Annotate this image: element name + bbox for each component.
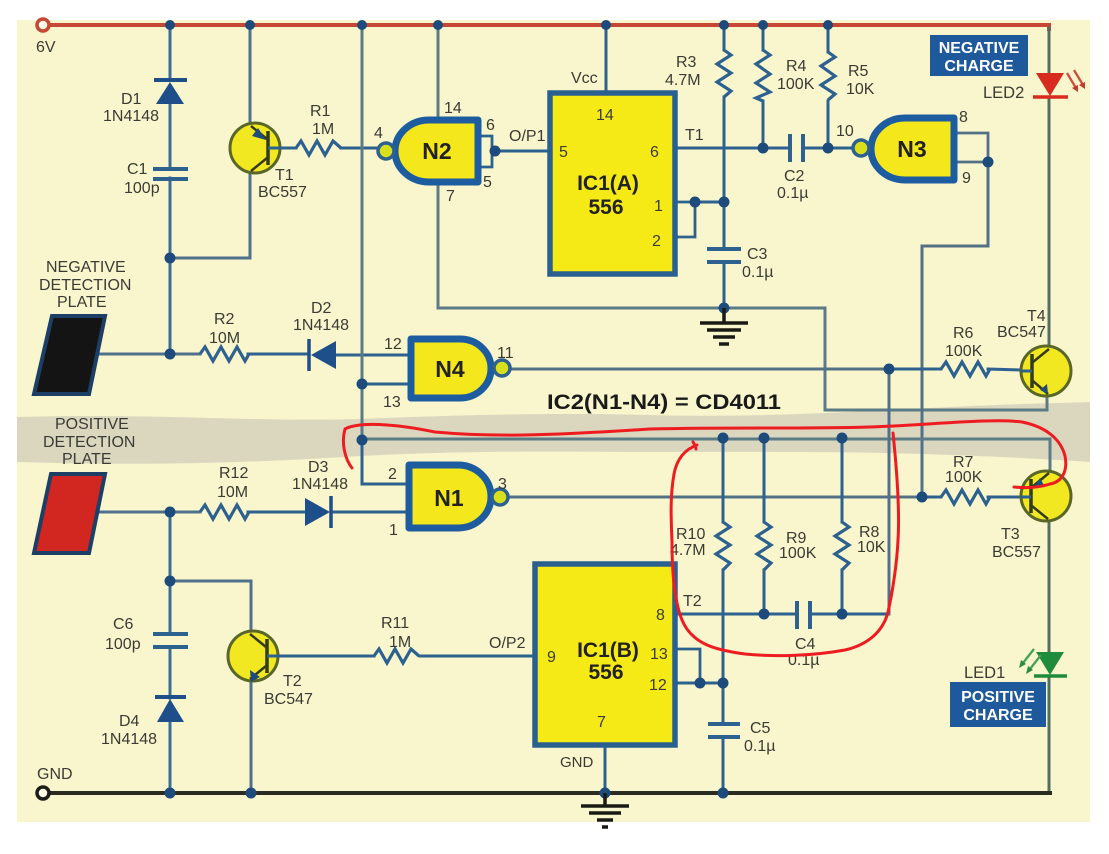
- diode D2: [309, 339, 336, 371]
- svg-text:T3: T3: [1001, 526, 1020, 543]
- svg-text:R12: R12: [219, 465, 248, 482]
- svg-text:LED2: LED2: [983, 84, 1024, 102]
- gate N1 bubble pin3: [492, 489, 508, 505]
- node R3 C3: [719, 197, 730, 208]
- negative detection plate: [34, 316, 105, 394]
- svg-text:LED1: LED1: [964, 664, 1005, 682]
- svg-text:100p: 100p: [124, 180, 160, 197]
- svg-text:R6: R6: [953, 325, 974, 342]
- svg-text:13: 13: [650, 646, 668, 663]
- svg-text:NEGATIVE: NEGATIVE: [46, 259, 126, 276]
- IC IC1(B) 556 body: [535, 564, 675, 745]
- svg-text:R10: R10: [676, 526, 705, 543]
- svg-text:2: 2: [388, 466, 397, 483]
- wire 6V top rail: [49, 23, 1049, 27]
- wire IC1A pins1-2 bracket: [675, 202, 695, 237]
- node pin12 R10: [718, 678, 729, 689]
- node 6V terminal: [37, 19, 49, 31]
- node R4 T1net: [758, 143, 769, 154]
- svg-text:100K: 100K: [777, 76, 815, 93]
- svg-text:7: 7: [597, 714, 606, 731]
- wire R7 to T3 base: [922, 496, 941, 499]
- node gnd x170: [165, 788, 176, 799]
- svg-text:T1: T1: [685, 127, 704, 144]
- svg-text:13: 13: [383, 394, 401, 411]
- svg-text:GND: GND: [37, 766, 73, 783]
- svg-text:T2: T2: [683, 593, 702, 610]
- wire N3 inputs bracket pins 8,9: [954, 133, 988, 162]
- node GND terminal: [37, 787, 49, 799]
- wire positive plate to R12: [96, 511, 200, 514]
- resistor R8: [835, 522, 849, 570]
- svg-text:0.1µ: 0.1µ: [777, 185, 808, 202]
- gate N4 bubble pin11: [494, 360, 510, 376]
- svg-text:556: 556: [588, 661, 623, 684]
- node ground IC1A: [719, 303, 730, 314]
- ground symbol IC1A: [700, 308, 748, 344]
- resistor R12: [200, 505, 249, 519]
- svg-text:10M: 10M: [209, 330, 240, 347]
- svg-text:R11: R11: [381, 615, 409, 632]
- positive detection plate: [34, 474, 105, 553]
- svg-text:100K: 100K: [945, 469, 983, 486]
- svg-text:R5: R5: [848, 63, 869, 80]
- wire C2 right to N3 bubble pin10: [803, 147, 853, 150]
- node N4out R6: [884, 364, 895, 375]
- capacitor C6: [153, 634, 188, 647]
- gray scan band: [17, 402, 1090, 464]
- node N1out R7: [917, 492, 928, 503]
- svg-text:C6: C6: [113, 616, 134, 633]
- svg-text:14: 14: [596, 107, 614, 124]
- svg-text:8: 8: [656, 607, 665, 624]
- svg-text:10K: 10K: [857, 539, 886, 556]
- svg-text:1: 1: [654, 198, 663, 215]
- svg-text:T4: T4: [1027, 308, 1046, 325]
- svg-text:IC1(A): IC1(A): [577, 172, 639, 195]
- svg-text:12: 12: [649, 677, 667, 694]
- node gnd x251: [246, 788, 257, 799]
- resistor R10: [716, 522, 730, 570]
- diode D4: [155, 697, 186, 722]
- label box NEGATIVE CHARGE: [930, 35, 1028, 76]
- node R8 C4: [837, 609, 848, 620]
- node plate R12: [165, 507, 176, 518]
- svg-text:1M: 1M: [312, 121, 334, 138]
- wire R5 leads: [827, 25, 830, 52]
- node rail x250: [245, 20, 255, 30]
- label box POSITIVE CHARGE: [950, 682, 1046, 727]
- svg-text:R4: R4: [786, 58, 807, 75]
- svg-text:6V: 6V: [36, 39, 56, 56]
- wire R9 leads: [763, 438, 766, 522]
- node rail x362: [357, 20, 367, 30]
- svg-text:5: 5: [559, 144, 568, 161]
- wire IC1B pin7 to ground rail: [604, 745, 607, 793]
- IC IC1(A) 556 body: [550, 93, 675, 274]
- svg-text:IC2(N1-N4) = CD4011: IC2(N1-N4) = CD4011: [547, 391, 781, 414]
- gate N4 body: [411, 339, 491, 398]
- resistor R1: [296, 141, 341, 155]
- node N4 pin13: [357, 379, 368, 390]
- svg-text:4.7M: 4.7M: [665, 72, 701, 89]
- node R8 top: [837, 433, 848, 444]
- svg-text:0.1µ: 0.1µ: [742, 264, 773, 281]
- svg-text:1: 1: [389, 522, 398, 539]
- node rail R3: [719, 20, 729, 30]
- wire R4 leads: [762, 25, 765, 50]
- wire T3 collector to LED1: [1048, 520, 1051, 653]
- svg-text:3: 3: [498, 476, 507, 493]
- svg-text:1M: 1M: [389, 634, 411, 651]
- svg-text:NEGATIVE: NEGATIVE: [939, 40, 1020, 57]
- svg-text:6: 6: [650, 144, 659, 161]
- gate N2 bubble pin4: [378, 143, 394, 159]
- svg-text:8: 8: [959, 109, 968, 126]
- node pin1 bracket: [690, 197, 701, 208]
- gate N3 body: [871, 118, 954, 180]
- svg-text:1N4148: 1N4148: [293, 317, 349, 334]
- ground symbol IC1B: [581, 793, 629, 827]
- svg-text:C2: C2: [784, 168, 805, 185]
- svg-text:POSITIVE: POSITIVE: [961, 689, 1035, 706]
- wire D2 to N4 pin12: [336, 354, 411, 357]
- diode D1: [154, 80, 187, 104]
- svg-text:N3: N3: [897, 136, 926, 162]
- wire T1 base to R1 to N2 bubble: [282, 147, 296, 150]
- wire T2 emitter to ground rail: [250, 680, 253, 793]
- transistor T2 BC547: [228, 631, 283, 682]
- svg-text:100K: 100K: [779, 545, 817, 562]
- wire C4 right to x889 riser: [810, 613, 889, 616]
- svg-text:T2: T2: [283, 673, 302, 690]
- svg-text:D1: D1: [121, 91, 142, 108]
- gate N1 body: [409, 465, 491, 528]
- svg-text:POSITIVE: POSITIVE: [55, 416, 129, 433]
- svg-text:D4: D4: [119, 713, 140, 730]
- wire node to T2 collector: [170, 581, 251, 633]
- svg-text:GND: GND: [560, 754, 594, 771]
- LED1 green: [1019, 649, 1067, 676]
- svg-text:PLATE: PLATE: [62, 451, 112, 468]
- LED2 red: [1033, 70, 1085, 97]
- resistor R4: [756, 50, 770, 101]
- svg-text:5: 5: [483, 174, 492, 191]
- wire N2 pin14 vertical from rail through gate: [437, 25, 440, 120]
- resistor R2: [200, 347, 249, 361]
- svg-text:C4: C4: [795, 636, 816, 653]
- wire N2 pin7 down then ground run right, down, right to T4 emitter: [438, 182, 1047, 410]
- svg-text:6: 6: [486, 117, 495, 134]
- node N3 bracket: [983, 157, 994, 168]
- node R5 C2: [823, 143, 834, 154]
- wire T1 emitter to rail: [249, 25, 252, 123]
- wire R10 bottom to pin12 line to C5 to ground rail: [722, 570, 725, 724]
- wire Vcc from rail to IC1A pin14: [605, 25, 608, 93]
- wire IC1B pin13 bracket to pin12 line: [675, 649, 700, 683]
- svg-text:D2: D2: [311, 300, 332, 317]
- svg-text:7: 7: [446, 188, 455, 205]
- wire N1 output pin3 to R7 node: [509, 496, 922, 499]
- svg-text:CHARGE: CHARGE: [963, 707, 1033, 724]
- capacitor C2: [790, 134, 803, 162]
- svg-text:DETECTION: DETECTION: [39, 277, 131, 294]
- capacitor C1: [153, 169, 188, 179]
- svg-text:PLATE: PLATE: [57, 294, 107, 311]
- wire negative plate to R2: [96, 353, 200, 356]
- red pen main stroke: [343, 421, 1065, 488]
- node N2 output: [490, 146, 501, 157]
- node rail x170: [165, 20, 175, 30]
- wire R10 top lead: [722, 438, 725, 522]
- node C1-T1: [165, 253, 176, 264]
- resistor R9: [757, 522, 771, 570]
- node R9 top: [759, 433, 770, 444]
- wire GND bottom rail: [50, 791, 1050, 795]
- wire T2 net: IC1B pin8 to C4: [675, 613, 797, 616]
- wire R3 chain vertical x724: [723, 25, 726, 50]
- svg-text:DETECTION: DETECTION: [43, 434, 135, 451]
- resistor R11: [374, 649, 419, 663]
- node pin13 pin12: [695, 678, 706, 689]
- gate N2 body: [395, 120, 478, 182]
- wire R11 to IC1B pin9 O/P2: [420, 655, 535, 658]
- node rail Vcc: [601, 20, 611, 30]
- svg-text:R2: R2: [214, 311, 235, 328]
- svg-text:100K: 100K: [945, 343, 983, 360]
- wire positive plate down chain to C6 D4 ground: [169, 512, 172, 634]
- svg-text:BC557: BC557: [258, 184, 307, 201]
- svg-text:BC547: BC547: [997, 324, 1046, 341]
- wire 6V band line from x362 node right, down to T3 emitter: [362, 439, 1050, 471]
- transistor T1 BC557: [230, 123, 282, 173]
- node R9 pin8: [759, 609, 770, 620]
- wire N1 pin2 stub from 6V vertical: [362, 440, 409, 484]
- svg-text:1N4148: 1N4148: [101, 731, 157, 748]
- svg-text:C1: C1: [127, 161, 148, 178]
- gate N3 bubble pin10: [853, 140, 869, 156]
- red pen loop around R8 R9 R10 C4: [671, 433, 898, 656]
- wire IC1B pin12 to R10 chain: [675, 682, 723, 685]
- svg-text:1N4148: 1N4148: [292, 476, 348, 493]
- resistor R7: [941, 490, 990, 504]
- svg-text:C5: C5: [750, 720, 771, 737]
- svg-text:2: 2: [652, 233, 661, 250]
- svg-text:O/P2: O/P2: [489, 635, 526, 652]
- svg-text:12: 12: [384, 336, 402, 353]
- svg-text:556: 556: [588, 196, 623, 219]
- node rail R4: [758, 20, 768, 30]
- svg-text:11: 11: [497, 345, 514, 362]
- wire riser x889 from R6 node down to pin8 line: [888, 369, 891, 614]
- svg-text:O/P1: O/P1: [509, 128, 546, 145]
- transistor T4 BC547: [1021, 346, 1071, 396]
- svg-text:R1: R1: [310, 103, 331, 120]
- wire LED2 cathode to T4 collector: [1048, 98, 1051, 347]
- svg-text:10K: 10K: [846, 81, 875, 98]
- wire LED1 cathode to ground rail corner: [1048, 677, 1051, 791]
- node rail x438: [433, 20, 443, 30]
- svg-text:Vcc: Vcc: [571, 70, 598, 87]
- wire N4 pin13 stub: [362, 383, 411, 386]
- wire D1 C1 chain vertical: [169, 25, 172, 80]
- wire N1 N4 vertical x362 from rail: [361, 25, 364, 440]
- resistor R5: [821, 52, 835, 100]
- wire LED2 branch from rail corner down to T4: [1047, 25, 1051, 29]
- svg-text:0.1µ: 0.1µ: [744, 738, 775, 755]
- svg-text:T1: T1: [275, 167, 294, 184]
- svg-text:4.7M: 4.7M: [670, 542, 706, 559]
- transistor T3 BC557: [1021, 471, 1071, 521]
- capacitor C3: [707, 249, 741, 262]
- svg-text:9: 9: [547, 649, 556, 666]
- node plate R2: [165, 349, 176, 360]
- svg-text:N1: N1: [434, 485, 464, 511]
- node gnd x723: [718, 788, 729, 799]
- node x362 band: [357, 435, 368, 446]
- svg-text:N4: N4: [435, 356, 465, 382]
- resistor R3: [717, 50, 731, 97]
- resistor R6: [941, 362, 990, 376]
- svg-text:D3: D3: [308, 459, 329, 476]
- svg-text:N2: N2: [422, 138, 451, 164]
- svg-text:R3: R3: [676, 54, 697, 71]
- wire O/P1 from N2 bracket to IC1A pin5: [492, 150, 550, 153]
- svg-text:10: 10: [836, 123, 854, 140]
- diode D3: [305, 496, 331, 528]
- svg-text:1N4148: 1N4148: [103, 108, 159, 125]
- svg-text:BC547: BC547: [264, 691, 313, 708]
- red pen tick: [693, 442, 696, 449]
- wire C1 node to T1 collector: [170, 174, 250, 258]
- wire N2 inputs bracket pins 6,5: [477, 136, 492, 167]
- node T2 branch: [165, 576, 176, 587]
- node rail R5: [823, 20, 833, 30]
- svg-text:BC557: BC557: [992, 544, 1041, 561]
- capacitor C4: [797, 601, 810, 629]
- svg-text:4: 4: [374, 125, 383, 142]
- svg-text:9: 9: [962, 170, 971, 187]
- node R10 top: [718, 433, 729, 444]
- svg-text:14: 14: [444, 100, 462, 117]
- wire N4 output pin11 to R6: [510, 368, 889, 371]
- wire T2 base to R11: [283, 655, 374, 658]
- svg-text:CHARGE: CHARGE: [944, 58, 1014, 75]
- wire N3 feedback down-left-down to R7 node: [922, 162, 988, 497]
- wire T1 net: IC1A pin6 to C2: [675, 147, 790, 150]
- svg-text:IC1(B): IC1(B): [577, 639, 639, 662]
- node gnd pin7: [600, 788, 611, 799]
- svg-text:C3: C3: [747, 246, 768, 263]
- wire R8 leads: [841, 438, 844, 522]
- svg-text:10M: 10M: [217, 484, 248, 501]
- capacitor C5: [708, 724, 740, 737]
- svg-text:100p: 100p: [105, 636, 141, 653]
- wire D3 to N1 pin1: [332, 511, 409, 514]
